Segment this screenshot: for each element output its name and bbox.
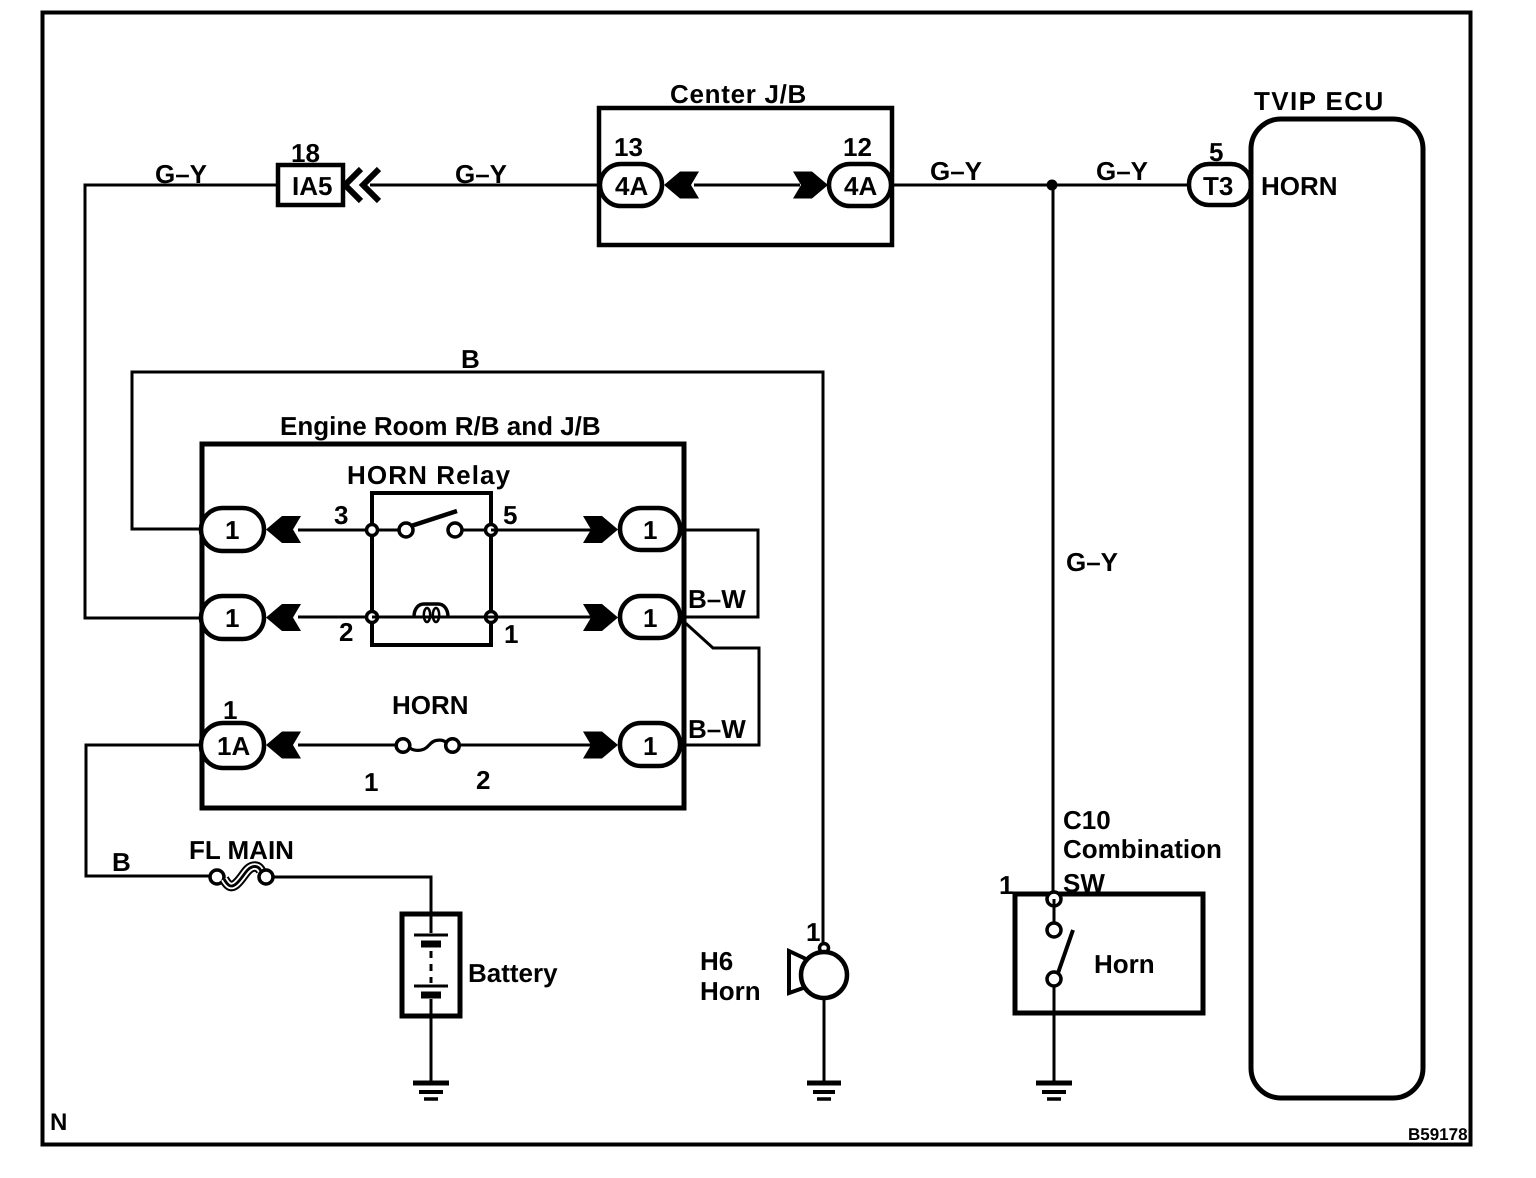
svg-text:12: 12	[843, 132, 872, 162]
svg-text:H6: H6	[700, 946, 733, 976]
svg-text:Horn: Horn	[1094, 949, 1155, 979]
svg-text:T3: T3	[1203, 171, 1233, 201]
connector 1 row2 right	[620, 596, 680, 638]
Engine Room R/B and J/B box	[202, 444, 684, 808]
relay contact terminals and arm	[367, 525, 378, 536]
svg-text:HORN: HORN	[392, 690, 469, 720]
svg-text:2: 2	[339, 617, 353, 647]
svg-text:13: 13	[614, 132, 643, 162]
svg-text:Center J/B: Center J/B	[670, 79, 807, 109]
svg-text:1: 1	[806, 917, 820, 947]
svg-text:1: 1	[225, 603, 239, 633]
svg-text:1: 1	[364, 767, 378, 797]
svg-text:G–Y: G–Y	[1066, 547, 1118, 577]
connector 4A right	[829, 164, 891, 206]
svg-text:B: B	[461, 344, 480, 374]
horn H6	[820, 944, 829, 953]
svg-text:FL MAIN: FL MAIN	[189, 835, 294, 865]
svg-text:G–Y: G–Y	[1096, 156, 1148, 186]
arrow into row3 right	[583, 732, 618, 759]
connector 1 row2 left	[201, 596, 264, 639]
svg-text:1: 1	[643, 731, 657, 761]
wire to relay pin 3	[298, 529, 372, 532]
svg-text:Horn: Horn	[700, 976, 761, 1006]
svg-text:HORN Relay: HORN Relay	[347, 460, 511, 490]
relay contact row wire	[372, 529, 491, 532]
connector 1A	[201, 723, 264, 768]
connector 4A left	[600, 164, 662, 206]
svg-text:C10: C10	[1063, 805, 1111, 835]
Center J/B box	[599, 108, 892, 245]
svg-text:HORN: HORN	[1261, 171, 1338, 201]
junction	[1047, 180, 1058, 191]
wire G-Y junction to combination switch	[1052, 185, 1055, 894]
wire horn to ground	[823, 998, 826, 1082]
wire G-Y to Center J/B	[370, 184, 600, 187]
svg-text:TVIP ECU: TVIP ECU	[1254, 86, 1385, 116]
connector 1 row3 right	[620, 723, 680, 766]
wire B from 1A to FL MAIN	[86, 745, 212, 876]
svg-text:B: B	[112, 847, 131, 877]
wire FL MAIN to battery	[273, 877, 431, 914]
wire B top	[132, 372, 823, 944]
wire to relay pin 2	[298, 616, 372, 619]
in-line connector chevrons	[345, 169, 361, 201]
connector IA5	[278, 165, 343, 205]
svg-text:1: 1	[643, 603, 657, 633]
battery	[402, 914, 460, 1016]
wire fuse to row3 right connector	[458, 744, 594, 747]
wire 1A to fuse HORN	[298, 744, 400, 747]
arrow into 4A left	[664, 172, 699, 199]
connector 1 row1 right	[620, 508, 680, 550]
svg-text:B–W: B–W	[688, 714, 746, 744]
connector T3	[1189, 164, 1251, 205]
svg-text:B–W: B–W	[688, 584, 746, 614]
wire inside Center J/B	[694, 184, 800, 187]
ground combination switch	[1036, 1081, 1072, 1086]
TVIP ECU box	[1251, 119, 1423, 1098]
wire B-W loop row1 to row2	[679, 530, 758, 617]
connector 1 row1 left	[201, 508, 264, 551]
arrow into row1 right	[583, 516, 618, 543]
svg-text:G–Y: G–Y	[155, 159, 207, 189]
arrow into row2 right	[583, 604, 618, 631]
svg-text:G–Y: G–Y	[455, 159, 507, 189]
wire G-Y from IA5 left, down to relay coil pin 2 connector	[85, 185, 278, 618]
relay HORN Relay box	[372, 493, 491, 645]
fuse HORN	[396, 739, 410, 753]
svg-text:4A: 4A	[844, 171, 877, 201]
svg-text:Combination: Combination	[1063, 834, 1222, 864]
wire relay pin5 to row1 right connector	[491, 529, 594, 532]
svg-text:2: 2	[476, 765, 490, 795]
wire through coil row	[372, 616, 491, 619]
svg-text:Battery: Battery	[468, 958, 558, 988]
switch terminals and arm	[1047, 892, 1061, 906]
svg-text:3: 3	[334, 500, 348, 530]
svg-text:IA5: IA5	[292, 171, 332, 201]
relay coil	[414, 604, 448, 617]
svg-text:1: 1	[223, 695, 237, 725]
wire battery to ground	[430, 1016, 433, 1082]
svg-text:Engine Room R/B and J/B: Engine Room R/B and J/B	[280, 411, 601, 441]
arrow into row1 left	[266, 516, 301, 543]
svg-text:1: 1	[643, 515, 657, 545]
arrow into 1A	[266, 732, 301, 759]
arrow into 4A right	[793, 172, 828, 199]
arrow into row2 left	[266, 604, 301, 631]
wire relay pin1 to row2 right connector	[491, 616, 594, 619]
svg-text:1: 1	[225, 515, 239, 545]
wire G-Y Center J/B to T3	[891, 184, 1189, 187]
ground horn	[807, 1081, 841, 1086]
switch C10 Combination SW box	[1015, 894, 1203, 1013]
svg-text:1A: 1A	[217, 731, 250, 761]
wire B-W loop row2 to row3	[681, 619, 759, 745]
svg-text:5: 5	[503, 500, 517, 530]
ground battery	[413, 1081, 449, 1086]
svg-text:1: 1	[504, 619, 518, 649]
svg-text:G–Y: G–Y	[930, 156, 982, 186]
svg-text:4A: 4A	[615, 171, 648, 201]
fusible link FL MAIN	[210, 870, 224, 884]
svg-text:N: N	[50, 1109, 67, 1136]
svg-text:1: 1	[999, 870, 1013, 900]
svg-text:B59178: B59178	[1408, 1125, 1468, 1144]
wire switch to ground	[1053, 986, 1056, 1082]
relay coil terminals	[367, 612, 378, 623]
